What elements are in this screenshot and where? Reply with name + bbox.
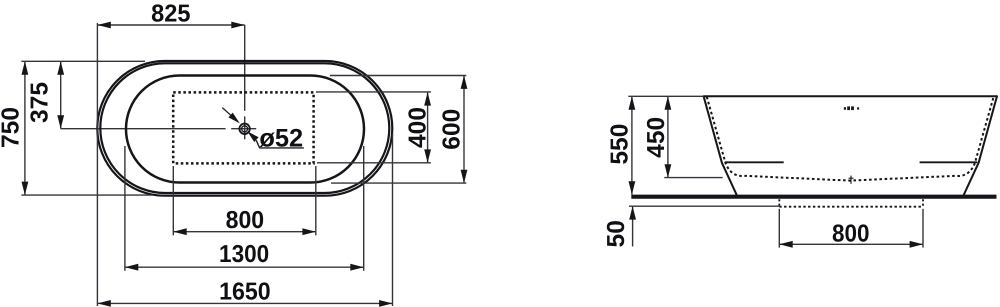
dimension 450: [667, 96, 669, 177]
overflow marks: [844, 106, 859, 110]
dimension 800 side: [779, 243, 923, 245]
dimension 1650: [97, 302, 392, 304]
svg-text:400: 400: [405, 107, 432, 148]
bottom edge extension line: [21, 194, 152, 196]
svg-text:800: 800: [226, 207, 265, 234]
drain outer circle: [239, 124, 249, 134]
svg-text:825: 825: [151, 0, 190, 27]
dimension 550: [631, 96, 633, 194]
svg-text:750: 750: [0, 107, 24, 148]
svg-text:450: 450: [643, 117, 670, 158]
svg-text:50: 50: [603, 220, 630, 247]
drain mark side view: [850, 176, 852, 184]
centerline horizontal through drain: [61, 128, 226, 130]
svg-text:1300: 1300: [219, 241, 269, 268]
svg-text:600: 600: [439, 109, 466, 150]
ledge line right: [920, 161, 978, 163]
drain inner circle: [242, 126, 248, 132]
centerline vertical from 825 dim down to drain: [244, 25, 246, 111]
dashed inner shell: [707, 97, 994, 181]
dimension 750: [24, 61, 26, 195]
dimension 375: [60, 61, 62, 128]
svg-text:375: 375: [26, 82, 53, 123]
dimension 1300: [125, 266, 364, 268]
dimension 600 (top view right): [463, 76, 465, 184]
svg-text:1650: 1650: [219, 278, 271, 305]
dimension 825: [97, 24, 244, 26]
bathtub outer rim, inner line: [100, 63, 389, 193]
svg-text:800: 800: [832, 220, 870, 247]
leader arrow upper-left pointing at drain: [222, 108, 232, 117]
top edge extension line: [21, 60, 145, 62]
svg-text:550: 550: [606, 124, 633, 165]
dimension 50: [632, 206, 634, 246]
dashed flat bottom area: [173, 92, 313, 163]
bathtub outer rim, outer line: [97, 61, 392, 196]
floor line: [631, 195, 996, 199]
leader arrow lower-right pointing at drain, with text underline: [247, 131, 258, 142]
dimension 800 (top view bottom): [173, 231, 315, 233]
ledge line left: [725, 161, 784, 163]
shared left extension line 825/1650: [96, 23, 98, 306]
hidden base below floor, dashed: [778, 199, 780, 207]
dimension 400 (top view right): [427, 92, 429, 163]
inner basin edge: [126, 76, 364, 183]
tub profile outline: [704, 96, 997, 195]
svg-text:ø52: ø52: [259, 124, 303, 152]
